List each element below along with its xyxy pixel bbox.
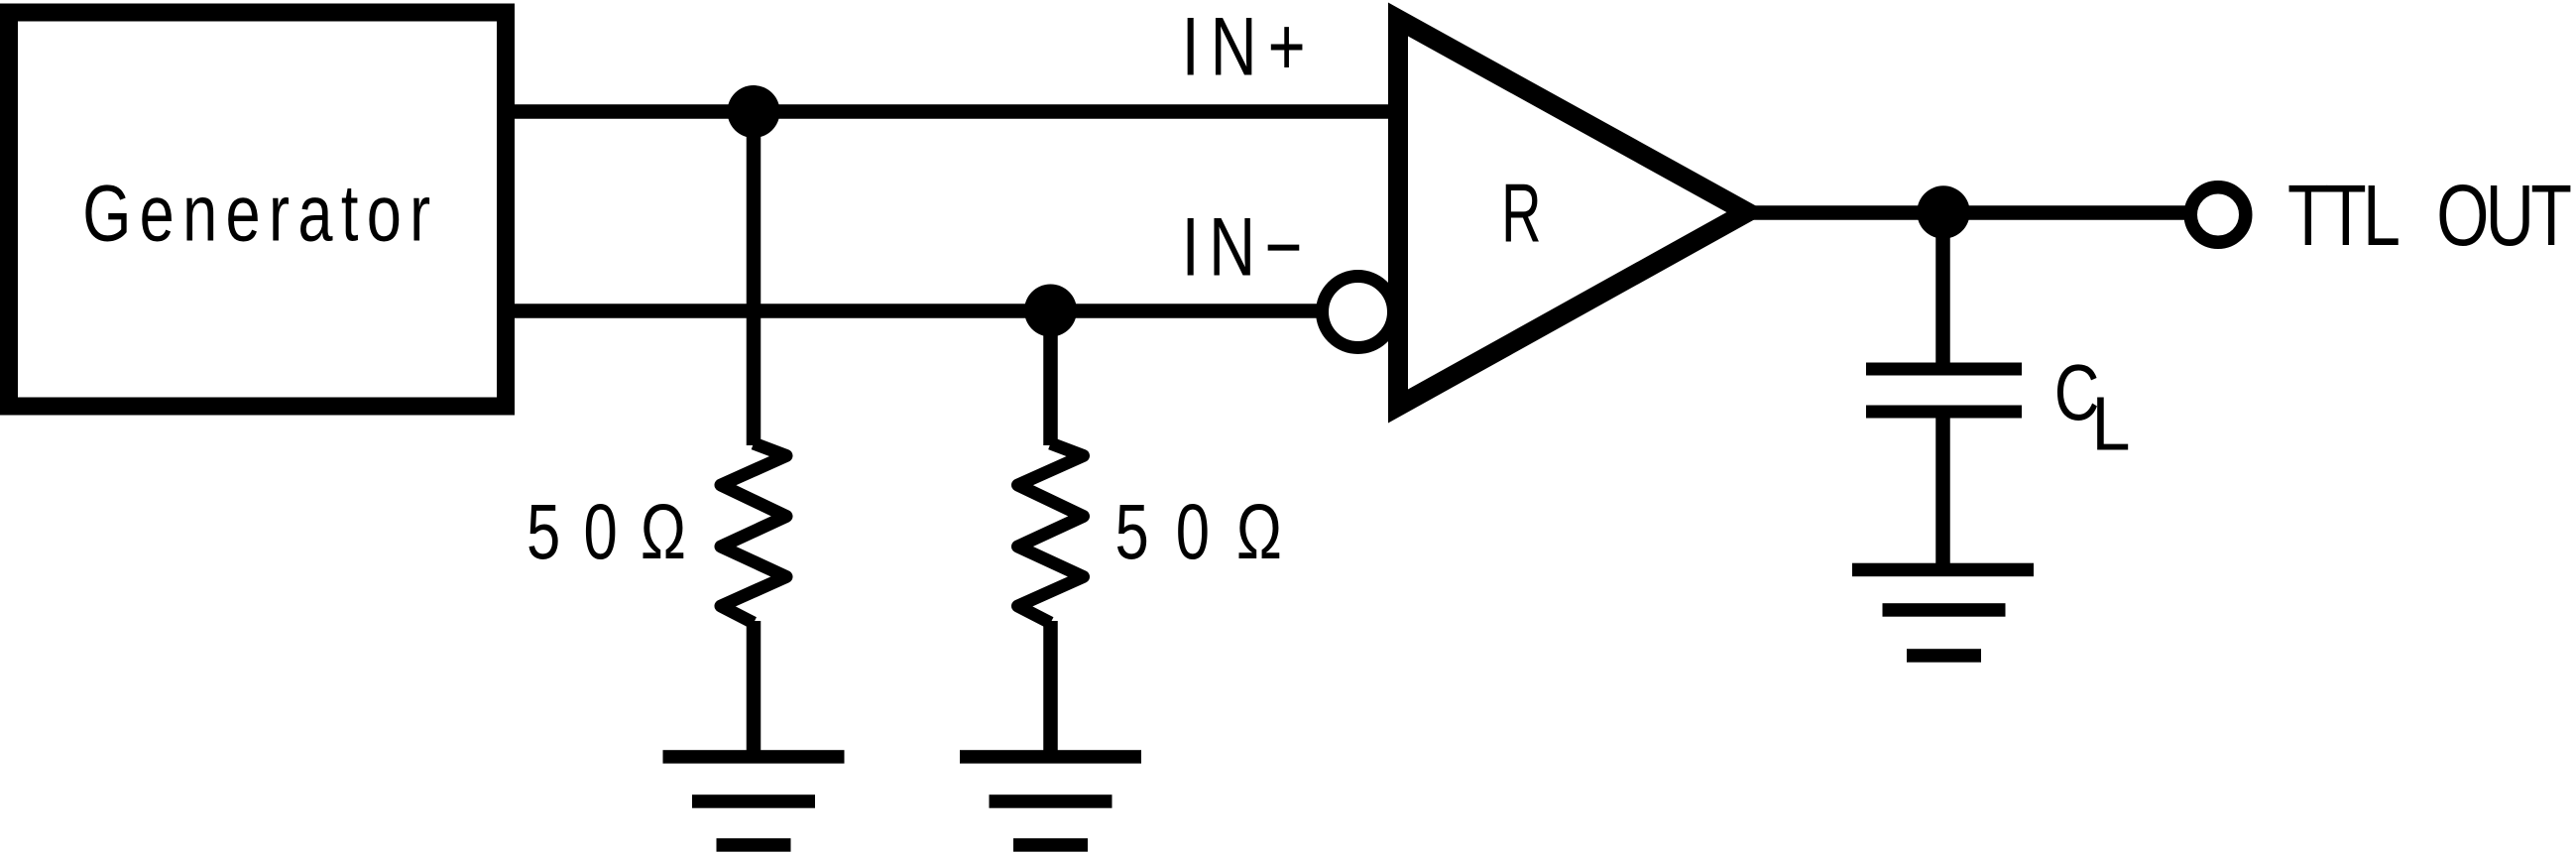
- ground G1 bar2: [692, 794, 815, 808]
- svg-text:50Ω: 50Ω: [1115, 489, 1282, 576]
- wire IN+ (generator to comparator): [506, 104, 1398, 119]
- capacitor CL top plate: [1866, 363, 2022, 376]
- wire from IN+ node down to resistor R1: [747, 112, 761, 446]
- node junction dot at output: [1917, 185, 1969, 238]
- node junction dot on IN+: [728, 85, 780, 138]
- ground G1 bar3: [717, 838, 791, 852]
- resistor R2 50 ohm zigzag: [1018, 443, 1084, 623]
- comparator U1 triangle: [1398, 20, 1747, 407]
- wire from capacitor to ground: [1935, 417, 1950, 565]
- terminal TTL OUT open circle: [2190, 187, 2246, 243]
- wire from output node down to capacitor CL: [1935, 212, 1950, 363]
- capacitor CL bottom plate: [1866, 406, 2022, 419]
- ground G2 bar3: [1013, 838, 1088, 852]
- resistor R1 50 ohm zigzag: [721, 443, 786, 623]
- svg-text:50Ω: 50Ω: [527, 489, 686, 576]
- ground G2 bar1: [960, 750, 1141, 764]
- ground G3 bar3: [1907, 649, 1981, 663]
- node junction dot on IN-: [1024, 285, 1077, 337]
- svg-text:L: L: [2091, 380, 2130, 466]
- wire from R1 to ground: [747, 621, 761, 757]
- ground G3 bar1: [1852, 563, 2034, 577]
- ground G2 bar2: [990, 794, 1112, 808]
- generator box: [9, 13, 506, 407]
- wire comparator output: [1740, 205, 2192, 220]
- wire IN- (generator to inverting bubble): [506, 304, 1323, 318]
- svg-text:TTL OUT: TTL OUT: [2287, 167, 2572, 264]
- ground G1 bar1: [663, 750, 845, 764]
- wire from R2 to ground: [1043, 621, 1058, 757]
- svg-text:R: R: [1501, 169, 1541, 261]
- wire from IN- node down to resistor R2: [1043, 310, 1058, 445]
- inverting input bubble: [1323, 277, 1394, 348]
- ground G3 bar2: [1883, 603, 2006, 617]
